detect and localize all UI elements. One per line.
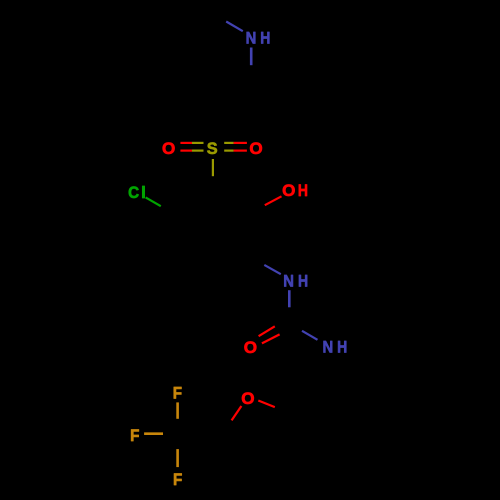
svg-text:F: F [173, 470, 182, 489]
wire: bond O-C(aryl) (O half, red) [265, 196, 282, 205]
wire: urea C=O double bond, lower red line [262, 334, 280, 343]
wire: bond C(urea)-N2 (N half, blue) [302, 331, 318, 340]
svg-text:O: O [282, 181, 295, 200]
wire: bond CH3-N (N half, blue) [226, 22, 243, 32]
wire: double bond S=O right, lower line olive half [224, 150, 233, 152]
wire: bond O-C2(furan) (O half, red, down-right) [258, 401, 275, 408]
node Cl (chlorine label) [128, 183, 146, 202]
svg-text:H: H [260, 29, 270, 48]
wire: bond S-C(aryl) (S half, olive, vertical) [212, 159, 214, 176]
svg-text:O: O [249, 139, 262, 158]
svg-text:N: N [283, 271, 294, 290]
svg-text:N: N [322, 338, 333, 357]
node OH (phenol oxygen label) [282, 181, 308, 200]
wire: bond F-C (F half, gold, horizontal) [144, 432, 163, 435]
wire: double bond O=S left, upper line olive half [192, 142, 204, 144]
svg-text:F: F [130, 426, 139, 445]
svg-text:F: F [173, 384, 182, 403]
node NH (urea nitrogen label) [322, 338, 347, 357]
wire: double bond S=O right, upper line red half [234, 142, 247, 144]
svg-text:H: H [337, 338, 347, 357]
wire: double bond O=S left, lower line red half [180, 150, 192, 152]
wire: double bond O=S left, lower line olive half [192, 150, 204, 152]
svg-text:O: O [241, 389, 254, 408]
wire: double bond S=O right, upper line olive half [224, 142, 233, 144]
svg-text:S: S [207, 139, 218, 158]
wire: bond O-C5(furan) (O half, red, down-left) [232, 406, 242, 420]
svg-text:C: C [128, 183, 139, 202]
svg-text:H: H [298, 271, 308, 290]
wire: bond F-C (F half, gold, vertical) [176, 402, 179, 418]
wire: bond C(aryl)-N (N half, blue) [264, 265, 281, 274]
wire: urea C=O double bond, upper red line [259, 326, 275, 336]
svg-text:O: O [244, 338, 257, 357]
svg-text:l: l [141, 183, 146, 202]
wire: bond Cl-C(aryl) (Cl half, green) [146, 197, 161, 206]
wire: bond N-C(urea) (N half, blue, vertical) [288, 290, 291, 307]
node NH (anilide nitrogen label) [283, 271, 308, 290]
wire: double bond S=O right, lower line red half [234, 150, 247, 152]
node NH (methylamine nitrogen label) [246, 29, 271, 48]
svg-text:N: N [246, 29, 257, 48]
wire: bond F-C (F half, gold, vertical) [176, 449, 179, 467]
svg-text:H: H [298, 181, 308, 200]
wire: double bond O=S left, upper line red half [180, 142, 192, 144]
svg-text:O: O [162, 139, 175, 158]
wire: bond N-CH2 (N half, blue, vertical) [250, 48, 253, 66]
